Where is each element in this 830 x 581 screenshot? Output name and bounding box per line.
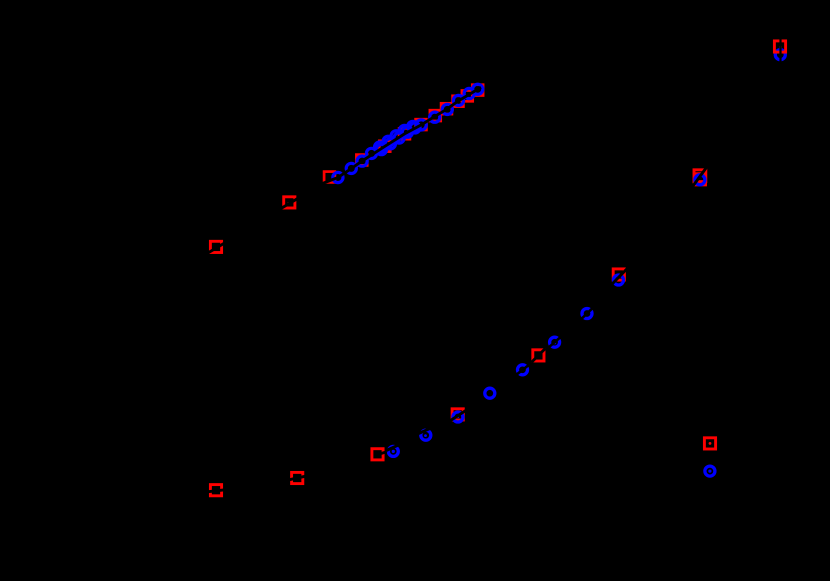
blue circle chain c17 xyxy=(442,104,452,114)
blue circle chain c13 upper xyxy=(408,121,418,131)
red square chain S10 xyxy=(472,85,483,96)
black dashed line over chain xyxy=(316,87,481,186)
red square chain S6 xyxy=(430,110,441,121)
blue circle chain c3 xyxy=(357,156,367,166)
black dash through descending square D2 xyxy=(287,476,307,480)
red square left-branch 1 xyxy=(210,241,221,252)
red square chain S7 xyxy=(441,103,452,114)
blue circle isolated b11 xyxy=(705,466,715,476)
red center dot D8 xyxy=(779,46,782,49)
blue circle descending b1 xyxy=(388,446,398,456)
blue center dot b3 xyxy=(457,416,459,418)
black dash through circle b2 xyxy=(418,429,430,434)
black dash through circle b6 xyxy=(548,337,561,348)
red square left-branch 2 xyxy=(284,197,295,208)
red square chain S9 xyxy=(462,91,473,102)
red square descending D2 xyxy=(292,472,303,483)
black dash through left-branch square 2 xyxy=(280,198,298,209)
red center dot D9 xyxy=(709,442,712,445)
red square descending D7 xyxy=(694,170,706,182)
blue center dot b1 xyxy=(392,450,395,453)
blue circle chain c12 lower xyxy=(402,127,412,137)
blue circle chain c18 xyxy=(453,95,463,105)
black dash through circle b7 xyxy=(581,307,594,319)
blue circle chain c14 lower xyxy=(410,123,420,133)
blue circle descending b10 xyxy=(775,50,785,60)
blue circle descending b6 xyxy=(550,337,560,347)
blue circle chain c19 xyxy=(464,88,474,98)
blue circle descending b5 xyxy=(518,365,528,375)
black dash through D6 and b8 xyxy=(610,269,627,286)
black dash through descending square D5 xyxy=(531,348,545,362)
red square chain S8 xyxy=(453,96,464,107)
red square chain S1 xyxy=(324,172,335,183)
black vertical dash through D8 and b10 xyxy=(779,39,781,62)
red square descending D6 xyxy=(613,269,624,280)
red square chain S2 xyxy=(356,155,367,166)
red square chain S5 xyxy=(416,119,427,130)
blue circle chain c16 xyxy=(430,112,440,122)
red square descending D3 xyxy=(372,449,383,460)
blue circle descending b7 xyxy=(582,309,592,319)
red square descending D4 xyxy=(452,409,463,420)
blue circle chain c20 xyxy=(473,84,483,94)
black dash through D7 and b9 xyxy=(692,167,707,187)
blue circle chain c2 xyxy=(346,163,356,173)
red square descending D1 xyxy=(210,485,221,496)
red square isolated D9 xyxy=(704,438,715,449)
blue center dot b2 xyxy=(424,434,427,437)
black dash through circle b5 xyxy=(516,365,529,375)
red square descending D7b xyxy=(694,174,705,185)
blue circle chain c9 upper xyxy=(391,131,401,141)
blue circle chain c15 xyxy=(416,120,426,130)
blue circle descending b9 xyxy=(695,175,705,185)
red square chain S3 xyxy=(379,141,390,152)
blue circle chain c7 upper xyxy=(383,136,393,146)
blue circle chain c11 upper xyxy=(399,125,409,135)
blue circle descending b8 xyxy=(614,275,624,285)
black dash through circle b1 xyxy=(386,445,398,450)
red center dot D5 xyxy=(537,354,539,356)
blue circle descending b2 xyxy=(421,430,431,440)
black dash through descending square D3 xyxy=(375,452,387,456)
blue center dot b11 xyxy=(708,470,711,473)
blue circle descending b4 xyxy=(485,388,495,398)
blue circle chain c5 upper xyxy=(375,142,385,152)
blue center dot b7 xyxy=(586,312,588,314)
black dash through D4 and b3 xyxy=(449,410,467,422)
blue center dot b5 xyxy=(521,369,523,371)
red square descending D8 xyxy=(774,41,785,52)
black dash through left-branch square 1 xyxy=(207,243,225,254)
blue circle chain c10 lower xyxy=(394,133,404,143)
blue center dot b6 xyxy=(554,342,557,345)
black dash through descending square D1 xyxy=(206,490,226,492)
blue circle chain c4 xyxy=(366,148,376,158)
blue circle chain c1 xyxy=(333,172,343,182)
red center dot A2 xyxy=(287,202,289,204)
red square descending D5 xyxy=(533,350,544,361)
blue circle descending b3 xyxy=(453,412,463,422)
blue circle chain c6 lower xyxy=(376,145,386,155)
blue circle chain c8 lower xyxy=(385,139,395,149)
red square chain S4 xyxy=(399,128,410,139)
